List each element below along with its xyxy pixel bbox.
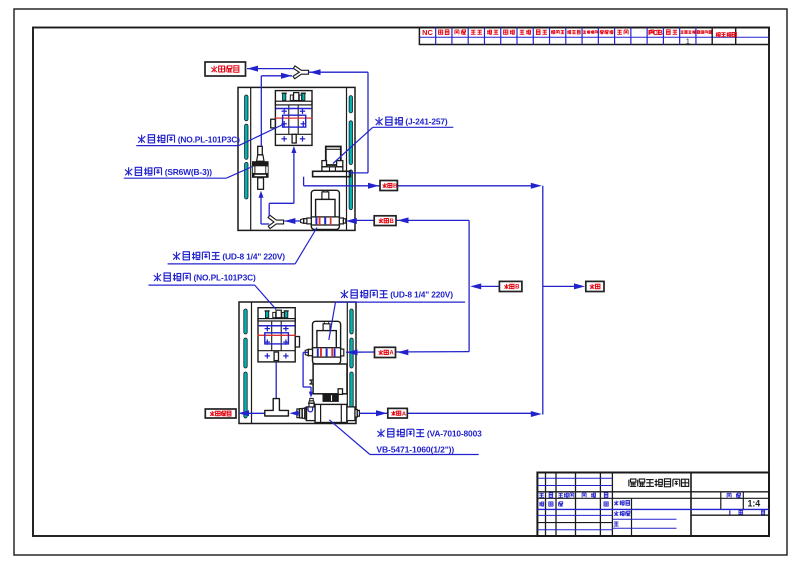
pipeline pump SR6W (B-3) <box>252 146 269 189</box>
svg-text:(UD-8 1/4" 220V): (UD-8 1/4" 220V) <box>390 289 453 299</box>
wire: pump outlet down to lower wye <box>259 191 270 224</box>
wire: inlet riser <box>468 220 470 351</box>
node label: drain B <box>380 181 397 191</box>
upper mounting panel <box>238 87 355 230</box>
wire: upper wye to water box riser <box>269 146 296 217</box>
water solenoid valve UD-8 (lower) <box>305 321 344 364</box>
wire: two-way valve to tee <box>289 411 299 416</box>
svg-text:1: 1 <box>686 37 690 46</box>
wire: inlet source into riser <box>470 283 499 289</box>
top process table <box>419 28 769 45</box>
title block <box>537 473 769 537</box>
annotation: water box assembly NO.PL-101P3C (lower) <box>149 272 277 309</box>
node label: to humidifier <box>205 409 236 418</box>
node label: inlet A <box>375 347 396 357</box>
node label: main drain <box>586 281 604 291</box>
svg-text:(NO.PL-101P3C): (NO.PL-101P3C) <box>194 272 256 282</box>
title block labels (revision columns) <box>539 493 608 506</box>
water box assembly (lower) NO.PL-101P3C <box>257 308 299 362</box>
annotation: water box assembly NO.PL-101P3C (upper) <box>136 124 284 146</box>
title block label: pages row <box>730 510 765 514</box>
wire: inlet-A line into lower UD-8 <box>346 349 469 355</box>
electric two-way valve VA-7010-8003 <box>297 364 360 423</box>
wire: drain-A to main drain riser <box>359 410 541 417</box>
svg-text:A: A <box>389 351 394 357</box>
wire: main drain riser <box>542 186 544 415</box>
solenoid valve J-241-257 <box>313 147 351 177</box>
annotation: water solenoid valve UD-8 (lower) <box>329 289 465 340</box>
water solenoid valve UD-8 (upper) <box>301 190 346 229</box>
svg-text:(VA-7010-8003: (VA-7010-8003 <box>427 428 482 438</box>
svg-text:1:4: 1:4 <box>747 498 760 508</box>
mounting shelf for J-241-257 <box>313 171 351 176</box>
annotation: pipeline pump SR6W(B-3) <box>124 167 253 179</box>
table headers (cjk) <box>439 30 712 35</box>
annotation: electric two-way valve VB-5471-1060 <box>329 420 478 455</box>
svg-text:B: B <box>515 285 520 291</box>
wire: top-Y stem to right riser <box>309 69 369 75</box>
lower mounting panel <box>239 302 356 424</box>
svg-text:(J-241-257): (J-241-257) <box>405 117 447 127</box>
svg-text:B: B <box>393 184 397 190</box>
annotation: solenoid valve J-241-257 <box>333 117 453 164</box>
node label: inlet B (at valve) <box>374 216 396 226</box>
svg-text:(NO.PL-101P3C): (NO.PL-101P3C) <box>178 134 240 144</box>
table cell unit-qty heading <box>716 32 737 36</box>
wire: lower UD-8 outlet to two-way valve port <box>303 352 313 397</box>
wire: lower water box pipe down to tee <box>275 362 277 399</box>
node label: drain water tank (top-left) <box>205 62 246 76</box>
wire: top-Y upper branch to tank label <box>247 66 294 72</box>
wye fitting (upper panel) <box>268 215 284 228</box>
node label: drain A <box>388 408 408 418</box>
svg-text:(UD-8 1/4" 220V): (UD-8 1/4" 220V) <box>222 251 285 261</box>
wire: branch to main drain outlet <box>543 283 585 289</box>
water box assembly (upper) NO.PL-101P3C <box>271 91 313 146</box>
wire: inlet-B line into upper UD-8 <box>346 217 469 224</box>
node label: inlet B (source) <box>499 281 522 291</box>
annotation: water solenoid valve UD-8 (upper) <box>168 228 317 264</box>
title block labels (material) <box>614 500 630 526</box>
svg-text:PCB: PCB <box>648 30 663 37</box>
svg-text:VB-5471-1060(1/2")): VB-5471-1060(1/2")) <box>376 445 454 455</box>
wire: drain-B from shelf to main drain riser <box>304 177 542 189</box>
title text: humidification system water supply diagram <box>629 479 689 487</box>
svg-text:NC: NC <box>422 28 433 37</box>
wire: tee to humidifier label <box>238 410 265 416</box>
title block label: scale check <box>727 493 741 497</box>
wire: right riser down to valve shelf <box>349 72 369 173</box>
tee fitting to humidifier <box>265 399 289 416</box>
wire: pump riser to top-Y lower branch <box>261 73 292 147</box>
svg-text:B: B <box>390 219 395 225</box>
wire: UD-8 upper outlet to wye <box>284 218 300 224</box>
wye fitting (top, to water tank) <box>293 66 309 79</box>
annotation: electric two-way valve VA-7010-8003 <box>0 0 482 438</box>
svg-text:(SR6W(B-3)): (SR6W(B-3)) <box>165 167 213 177</box>
